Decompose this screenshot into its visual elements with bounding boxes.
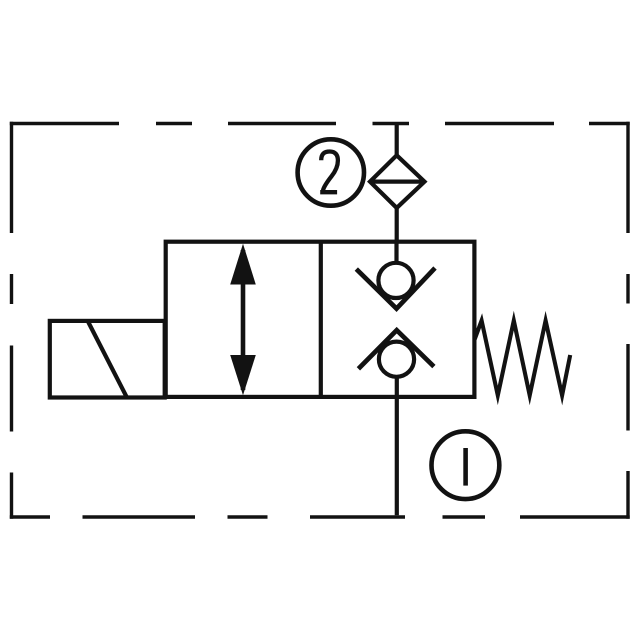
orifice diamond	[370, 155, 425, 208]
solenoid coil box	[50, 321, 165, 398]
valve body middle line	[319, 242, 323, 397]
solenoid diagonal	[88, 322, 126, 397]
check valve CV1 ball	[378, 263, 413, 298]
check valve CV2 ball	[379, 342, 414, 377]
enclosure dashed boundary right edge	[626, 122, 629, 519]
orifice cross line	[370, 180, 426, 184]
wire port 1	[395, 370, 399, 515]
wire port 2 to orifice	[395, 124, 399, 159]
check valve CV1 seat	[356, 268, 435, 309]
check valve CV2 seat	[358, 330, 434, 369]
flow arrow head down	[230, 355, 256, 395]
enclosure dashed boundary top edge	[10, 122, 630, 125]
return spring	[475, 321, 571, 396]
check valve CV1 wire	[394, 243, 398, 264]
port label circle 1	[432, 431, 500, 499]
valve body outline	[166, 242, 475, 397]
enclosure dashed boundary bottom edge	[10, 515, 630, 518]
digit 1	[463, 448, 468, 486]
port label circle 2	[298, 139, 364, 205]
digit 2	[320, 152, 338, 193]
flow arrow shaft	[241, 250, 246, 390]
wire orifice to valve body	[395, 208, 399, 243]
flow arrow head up	[230, 244, 256, 285]
enclosure dashed boundary left edge	[10, 122, 13, 519]
